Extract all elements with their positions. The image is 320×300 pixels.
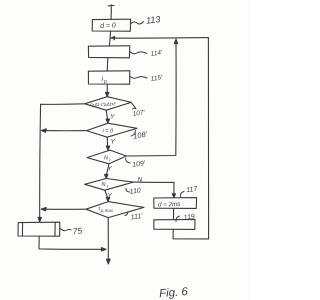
wire box114 to box115 [106,58,109,71]
wire diamond110 to diamond111 [105,190,108,198]
label 109' squiggle [126,159,131,164]
wire diamond109 N branch right and up to feedback [126,44,176,157]
arrow exit down [107,259,111,264]
svg-text:d = 0: d = 0 [100,22,116,30]
label 108' squiggle [131,131,136,137]
arrow into diamond 109' [106,146,109,150]
wire box117 to box119 [173,208,175,219]
label 115' squiggle [130,77,147,79]
arrow into diamond 111' [106,197,109,201]
svg-text:d = 2ms: d = 2ms [158,201,180,209]
node feedback junction arrow into spine [111,37,115,40]
subroutine box 75 inner right line [54,222,56,236]
decision diamond 107' [85,97,132,111]
label 117 squiggle [180,192,184,197]
svg-text:115′: 115′ [150,74,163,83]
wire box115 to diamond 107' [106,84,108,93]
svg-text:p,max: p,max [100,208,114,213]
wire diamond108 to diamond109 [106,137,108,146]
svg-text:p: p [103,79,107,85]
label 110 squiggle [126,189,130,193]
wire entry line with start tick [108,5,114,19]
decision diamond 110' [85,179,134,191]
wire diamond111 down to exit [107,218,109,260]
arrow into diamond 110' [105,174,108,178]
wire diamond107 to diamond108 [106,110,107,119]
svg-text:Y: Y [111,139,116,146]
svg-text:113: 113 [146,14,161,25]
wire left rail vertical [39,104,42,217]
svg-text:117: 117 [186,186,199,195]
svg-text:N: N [102,182,106,188]
label 107' squiggle [132,103,137,109]
label 111' squiggle [125,212,128,216]
svg-text:75: 75 [72,225,83,236]
svg-text:1: 1 [109,157,111,162]
svg-text:1: 1 [106,184,108,189]
label 113 squiggle [131,22,144,24]
svg-text:111′: 111′ [130,213,143,222]
subroutine box 75 [18,222,60,236]
wire box119 to right rail [173,229,209,239]
arrow into diamond 108' [106,119,109,123]
wire box113 to box114 [109,31,110,46]
wire right rail vertical [207,38,209,239]
arrow into diamond 107' [106,92,109,96]
process box 115' [88,71,129,84]
wire diamond109 to diamond110 [106,164,109,175]
label 119 squiggle [176,216,180,222]
svg-text:t≥Δt·t′≥Δt•t′: t≥Δt·t′≥Δt•t′ [90,101,117,108]
svg-text:108′: 108′ [133,130,149,141]
wire diamond111 N branch to left rail with arrow [45,208,87,210]
decision diamond 111' [86,202,144,218]
wire diamond107 N branch to left rail [41,103,85,106]
label 75 squiggle [61,229,72,231]
process box 113 [92,19,130,31]
svg-text:119: 119 [183,213,195,221]
svg-text:i = 0: i = 0 [103,129,114,135]
svg-text:107′: 107′ [132,109,146,118]
process box 117 [154,198,197,209]
process box 114' [88,46,129,58]
svg-text:N: N [104,156,108,162]
svg-text:114′: 114′ [150,49,163,58]
arrow up into feedback line [174,39,177,43]
svg-text:Fig. 6: Fig. 6 [159,286,189,300]
svg-text:110: 110 [129,187,141,195]
wire diamond110 N branch to box 117 [133,182,174,194]
arrow into box 75 [38,217,41,221]
svg-text:109′: 109′ [132,160,147,169]
subroutine box 75 inner left line [21,223,23,237]
wire feedback top horizontal [112,37,209,40]
label 114' squiggle [130,52,147,54]
svg-text:Y: Y [110,114,115,121]
decision diamond 109' [87,150,126,164]
arrow into box 117 [172,194,175,198]
decision diamond 108' [86,123,137,137]
process box 119 [154,219,195,229]
wire box75 exit to spine with arrow [39,236,103,249]
wire diamond108 N branch to left rail with arrow [45,130,87,132]
